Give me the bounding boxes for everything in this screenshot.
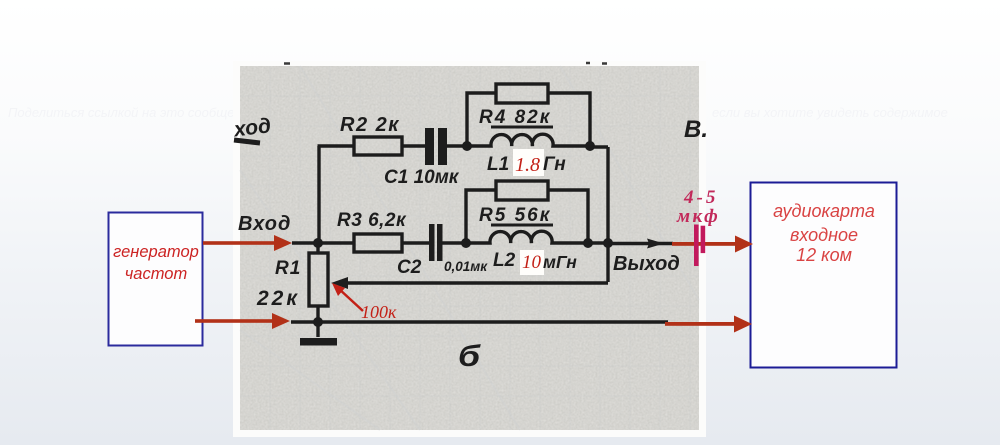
wire: C2 to node C	[443, 241, 467, 244]
capacitor C1	[425, 128, 447, 165]
node A	[462, 141, 472, 151]
wire: tank2 left riser	[466, 190, 496, 243]
wire: tank2 right riser	[548, 190, 588, 243]
wire: top branch left vertical	[317, 146, 320, 243]
svg-text:ход: ход	[232, 114, 273, 141]
svg-text:L1: L1	[487, 154, 509, 175]
box: генератор частот	[109, 213, 203, 346]
node F (ground node)	[313, 317, 323, 327]
wire: node B to right column	[590, 145, 608, 148]
svg-text:В.: В.	[684, 116, 708, 143]
annotation 100к (red)	[332, 283, 397, 322]
node C	[461, 238, 471, 248]
svg-text:10: 10	[522, 252, 542, 273]
highlight patch for 10	[520, 250, 544, 275]
svg-text:С2: С2	[397, 257, 422, 278]
wire: tank1 right riser	[548, 93, 590, 146]
svg-text:R3 6,2к: R3 6,2к	[337, 210, 407, 231]
svg-text:Гн: Гн	[543, 154, 566, 175]
annotation capacitor 4-5 мкф (magenta)	[676, 187, 720, 266]
inductor L1	[467, 134, 590, 146]
resistor R4	[496, 84, 548, 103]
capacitor C2	[429, 224, 443, 261]
svg-text:Выход: Выход	[613, 253, 680, 275]
svg-text:генератор: генератор	[113, 243, 199, 261]
red arrow: generator to Вход	[203, 235, 292, 251]
wiper arrow of R1	[331, 277, 608, 289]
resistor R1 (potentiometer)	[309, 253, 328, 306]
red arrow: bottom line to audio card	[665, 316, 752, 333]
resistor R5	[496, 181, 548, 200]
cropped label ход (top left of scan)	[232, 114, 273, 141]
svg-text:R5 56к: R5 56к	[479, 205, 551, 226]
resistor R2	[354, 137, 402, 155]
wire: R1 bottom	[316, 306, 319, 322]
svg-text:L2: L2	[493, 250, 516, 271]
svg-text:Поделиться ссылкой на это сооб: Поделиться ссылкой на это сообщение	[8, 105, 256, 120]
wire: R2 to C1	[402, 144, 425, 147]
wire: input to node In	[292, 241, 318, 244]
ground	[300, 322, 337, 346]
svg-text:входное: входное	[790, 225, 858, 245]
node B	[585, 141, 595, 151]
svg-text:R1: R1	[275, 258, 301, 279]
node D	[583, 238, 593, 248]
svg-text:100к: 100к	[361, 302, 397, 322]
svg-text:частот: частот	[125, 265, 187, 283]
svg-text:С1 10мк: С1 10мк	[384, 167, 460, 188]
wire: top branch to R2	[318, 144, 355, 147]
wire: C1 to node A	[447, 144, 467, 147]
red arrow: Выход to audio card	[672, 236, 753, 253]
svg-text:R4 82к: R4 82к	[479, 107, 551, 128]
node E (output)	[603, 238, 613, 248]
wire: R3 to C2	[402, 241, 429, 244]
inductor L2	[466, 231, 588, 243]
scan top edge marks	[284, 62, 607, 65]
watermark left	[8, 105, 256, 120]
cropped arrow under ход	[234, 140, 260, 143]
red arrow: generator to ground line	[195, 313, 290, 329]
scanned paper	[233, 61, 706, 437]
label R4 82к	[479, 107, 553, 128]
svg-text:R2 2к: R2 2к	[340, 114, 400, 136]
watermark right	[712, 105, 948, 120]
svg-text:мГн: мГн	[543, 252, 577, 272]
svg-text:4-5: 4-5	[683, 187, 718, 208]
svg-text:0,01мк: 0,01мк	[444, 259, 488, 274]
wire: node In to R3	[318, 241, 354, 244]
wire: right column vertical	[606, 147, 609, 282]
box: аудиокарта входное 12 ком	[751, 183, 897, 368]
svg-text:1.8: 1.8	[515, 154, 540, 176]
node In	[313, 238, 323, 248]
highlight patch for 1.8	[513, 149, 544, 176]
svg-text:22к: 22к	[256, 287, 300, 310]
label R5 56к	[479, 205, 553, 226]
wire: node D to node E	[588, 241, 608, 244]
svg-text:12 ком: 12 ком	[796, 245, 852, 265]
wire: output with arrow	[608, 239, 673, 249]
wire: node In down to R1	[316, 243, 319, 253]
svg-text:Вход: Вход	[238, 213, 291, 235]
svg-text:если вы хотите увидеть содержи: если вы хотите увидеть содержимое	[712, 105, 948, 120]
svg-text:б: б	[458, 340, 482, 373]
svg-text:мкф: мкф	[676, 206, 720, 227]
resistor R3	[354, 234, 402, 252]
wire: bottom line	[291, 320, 668, 323]
wire: tank1 left riser	[467, 93, 496, 146]
svg-text:аудиокарта: аудиокарта	[773, 201, 875, 221]
